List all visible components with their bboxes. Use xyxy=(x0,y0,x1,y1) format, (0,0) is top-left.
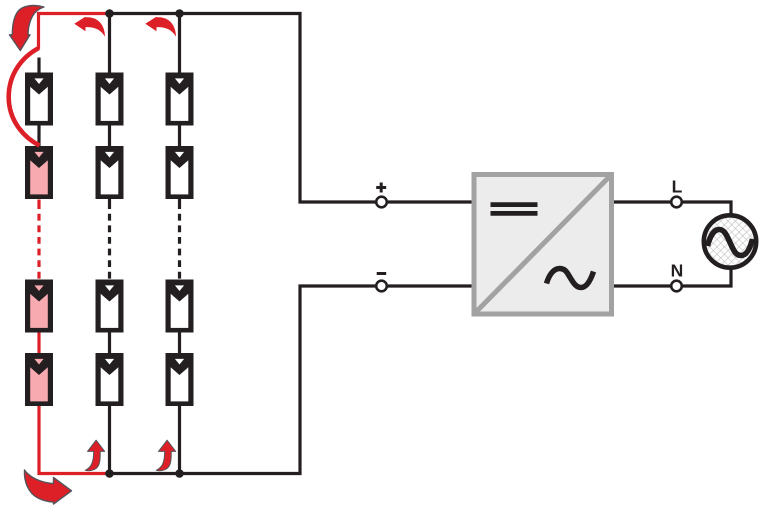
node A: top junction dot string 2 xyxy=(105,9,114,18)
svg-text:L: L xyxy=(672,176,683,196)
node C: bottom junction dot string 2 xyxy=(105,469,114,478)
PV module string3 row1 xyxy=(166,73,194,126)
terminal: L circle xyxy=(671,197,682,208)
node D: bottom junction dot string 3 xyxy=(175,469,184,478)
svg-text:N: N xyxy=(671,261,684,281)
PV module string2 row2 xyxy=(96,146,124,199)
wire: string 3 upper black section xyxy=(178,14,181,200)
PV module string2 row3 xyxy=(96,280,124,333)
PV module string1 row2 (shaded, highlighted pink) xyxy=(25,146,53,199)
wire: - terminal to inverter DC input xyxy=(388,284,472,287)
AC grid source: sine wave xyxy=(708,230,753,256)
wire: inverter AC output to N terminal xyxy=(614,284,670,287)
wire: string 2 lower black section xyxy=(108,280,111,474)
inverter U1: box xyxy=(474,175,612,315)
label: + sign xyxy=(376,183,386,193)
PV module string2 row4 xyxy=(96,353,124,406)
node B: top junction dot string 3 xyxy=(175,9,184,18)
PV module string1 row4 (highlighted pink) xyxy=(25,353,53,406)
wire: string 2 black dashed segment xyxy=(108,200,111,280)
inverter U1: DC symbol (=) xyxy=(491,205,538,214)
PV module string3 row4 xyxy=(166,353,194,406)
PV module string1 row3 (highlighted pink) xyxy=(25,280,53,333)
wire: string 1 red stub row3-row4 xyxy=(37,332,40,353)
arrow: big curved red arrow bottom-left (fault current exits string 1) xyxy=(24,470,71,504)
wire: string 1 red dashed segment xyxy=(37,200,40,280)
PV module string3 row3 xyxy=(166,280,194,333)
arrow: small red hook arrow at node A (current direction left) xyxy=(74,17,105,37)
arrow: small red hook arrow at node B (current direction left) xyxy=(145,17,176,37)
label: - sign xyxy=(377,272,387,275)
wire: string 1 stub between modules row1-row2 xyxy=(37,125,40,146)
inverter U1: diagonal divider xyxy=(474,175,612,315)
wire: string 3 black dashed segment xyxy=(178,200,181,280)
wire: string 1 top black stub above module xyxy=(37,58,40,74)
wire: bottom DC bus red segment (string 1 return) xyxy=(39,406,110,474)
wire: string 3 lower black section xyxy=(178,280,181,474)
wire: string 2 upper black section xyxy=(108,14,111,200)
terminal: N circle xyxy=(671,281,682,292)
wire: inverter AC output to L terminal xyxy=(614,200,670,203)
wire: bottom DC bus black segment with vertical rise to - terminal xyxy=(110,286,376,474)
PV module string2 row1 xyxy=(96,73,124,126)
wire: N terminal to AC source bottom xyxy=(683,269,731,286)
wire: L terminal to AC source top xyxy=(683,202,731,214)
wire: top DC bus red segment (string 1 to node A) xyxy=(39,14,110,50)
terminal: DC + circle xyxy=(376,197,387,208)
PV module string3 row2 xyxy=(166,146,194,199)
arrow: small red hook arrow at node D (current direction up) xyxy=(156,440,176,471)
arrow: small red hook arrow at node C (current direction up) xyxy=(85,440,105,471)
wire: + terminal to inverter DC input xyxy=(388,200,472,203)
arrow: big curved red arrow top-left (reverse current into string 1) xyxy=(10,6,45,51)
terminal: DC - circle xyxy=(376,281,387,292)
wire: top DC bus black segment with right vertical drop to + terminal xyxy=(110,14,376,203)
PV module string1 row1 xyxy=(25,73,53,126)
AC grid source: hatched circle xyxy=(704,215,756,267)
inverter U1: AC symbol (sine) xyxy=(547,269,594,288)
wire: red reverse-current bypass arc around string1 row1 module xyxy=(9,48,40,146)
